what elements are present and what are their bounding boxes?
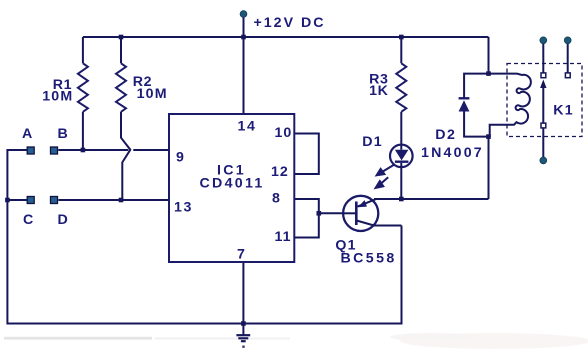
svg-text:CD4011: CD4011	[200, 175, 265, 191]
svg-text:1N4007: 1N4007	[421, 145, 484, 161]
svg-text:K1: K1	[553, 103, 574, 119]
svg-text:BC558: BC558	[341, 251, 397, 267]
svg-text:B: B	[58, 126, 69, 142]
svg-text:11: 11	[275, 229, 292, 245]
svg-text:9: 9	[176, 150, 185, 166]
svg-text:8: 8	[272, 191, 281, 207]
svg-text:12: 12	[271, 164, 289, 180]
svg-text:10M: 10M	[42, 88, 73, 104]
svg-text:A: A	[22, 126, 33, 142]
svg-text:14: 14	[238, 118, 257, 134]
svg-text:13: 13	[174, 200, 193, 216]
svg-text:D: D	[58, 212, 69, 228]
svg-text:7: 7	[237, 247, 246, 263]
svg-text:10M: 10M	[137, 86, 168, 102]
svg-text:C: C	[23, 212, 34, 228]
svg-text:D1: D1	[362, 134, 383, 150]
svg-text:10: 10	[275, 125, 293, 141]
svg-text:+12V DC: +12V DC	[254, 15, 326, 31]
svg-text:D2: D2	[435, 127, 456, 143]
svg-text:1K: 1K	[369, 83, 388, 99]
